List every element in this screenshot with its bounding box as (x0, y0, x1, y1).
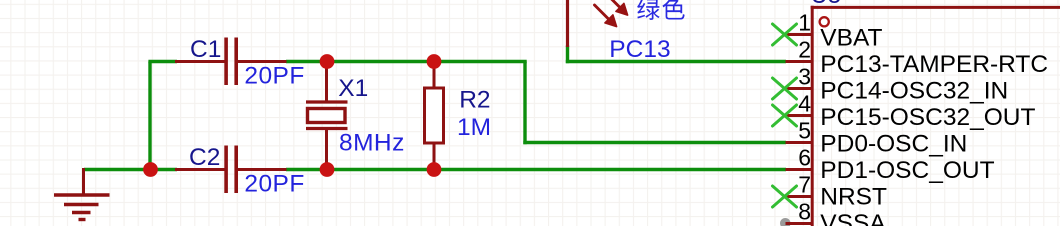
crystal X1 top lead (325, 62, 328, 102)
svg-text:20PF: 20PF (244, 171, 304, 198)
resistor R2 bottom lead (433, 143, 436, 170)
no-connect X on pin 4 (773, 105, 797, 126)
pin 5 PD0-OSC_IN stub (786, 141, 812, 144)
ground symbol stem (82, 168, 85, 194)
capacitor C2 plates (224, 146, 228, 194)
svg-text:PC15-OSC32_OUT: PC15-OSC32_OUT (820, 104, 1035, 131)
no-connect X on pin 7 (773, 186, 797, 207)
svg-text:3: 3 (798, 64, 811, 90)
gray dot on pin 8 (780, 218, 791, 229)
capacitor C2 left lead (175, 168, 225, 171)
pin 8 VSSA stub (786, 222, 812, 225)
wire PC13 horizontal to pin 2 (566, 60, 786, 63)
pin 3 PC14-OSC32_IN stub (786, 87, 812, 90)
LED emission arrow 1 (595, 5, 617, 27)
capacitor C2 right lead (238, 168, 287, 171)
crystal X1 top plate (306, 100, 348, 103)
junction dot ground/left vertical (143, 162, 158, 177)
svg-text:R2: R2 (459, 87, 490, 114)
svg-text:8MHz: 8MHz (339, 129, 405, 156)
wire left vertical (148, 62, 151, 170)
svg-text:PC14-OSC32_IN: PC14-OSC32_IN (820, 78, 1008, 105)
resistor R2 body (425, 88, 444, 143)
svg-text:NRST: NRST (820, 183, 887, 210)
LED color value 绿色 (drawn as vector glyphs) (637, 0, 684, 20)
svg-text:C1: C1 (190, 36, 221, 63)
crystal X1 body rectangle (308, 109, 346, 123)
wire bottom rail left segment (ground to C2) (84, 168, 177, 171)
ground bar 4 (79, 218, 86, 221)
pin 4 PC15-OSC32_OUT stub (786, 114, 812, 117)
IC U5 body left edge (811, 6, 814, 226)
svg-text:1: 1 (798, 10, 811, 36)
svg-text:VBAT: VBAT (820, 25, 882, 52)
capacitor C1 plates (224, 38, 228, 86)
junction dot crystal bottom (320, 162, 335, 177)
svg-text:6: 6 (798, 145, 811, 171)
LED emission arrow 2 (611, 0, 628, 15)
resistor R2 top lead (433, 62, 436, 89)
no-connect X on pin 3 (773, 78, 797, 99)
svg-text:PC13-TAMPER-RTC: PC13-TAMPER-RTC (820, 51, 1048, 78)
pin 1 VBAT stub (786, 33, 812, 36)
crystal X1 bottom lead (325, 130, 328, 170)
svg-text:8: 8 (798, 199, 811, 225)
svg-text:PD0-OSC_IN: PD0-OSC_IN (820, 130, 967, 157)
capacitor C1 right lead (238, 60, 287, 63)
pin 6 PD1-OSC_OUT stub (786, 168, 812, 171)
wire PC13 vertical from LED (566, 46, 569, 64)
wire top rail right segment (286, 60, 527, 63)
pin 7 NRST stub (786, 195, 812, 198)
svg-text:C2: C2 (189, 144, 220, 171)
junction dot crystal top (320, 54, 335, 69)
junction dot R2 bottom (427, 162, 442, 177)
wire step vertical from top rail to pin5 level (523, 62, 526, 145)
LED D? cathode lead (cut off at top) (566, 0, 569, 47)
svg-text:X1: X1 (338, 75, 368, 102)
svg-text:U5: U5 (811, 0, 842, 9)
no-connect X on pin 1 (773, 24, 797, 45)
svg-text:7: 7 (798, 172, 811, 198)
svg-text:PD1-OSC_OUT: PD1-OSC_OUT (820, 157, 994, 184)
wire top rail left segment (148, 60, 177, 63)
svg-text:2: 2 (798, 37, 811, 63)
svg-text:5: 5 (798, 118, 811, 144)
ground bar 1 (54, 193, 110, 196)
svg-text:4: 4 (798, 91, 811, 117)
ground bar 2 (64, 203, 99, 206)
wire to pin 5 PD0-OSC_IN (523, 141, 786, 144)
svg-text:20PF: 20PF (244, 63, 304, 90)
junction dot R2 top (427, 54, 442, 69)
crystal X1 bottom plate (306, 127, 348, 130)
pin 2 PC13-TAMPER-RTC stub (786, 60, 812, 63)
svg-text:VSSA: VSSA (820, 210, 886, 226)
ground bar 3 (72, 211, 91, 214)
wire bottom rail right segment (C2 to pin 6) (286, 168, 786, 171)
svg-text:1M: 1M (457, 114, 491, 141)
pin 1 indicator circle (820, 17, 829, 26)
IC U5 body top edge (811, 6, 1060, 9)
capacitor C1 left lead (175, 60, 225, 63)
svg-text:PC13: PC13 (609, 36, 670, 63)
